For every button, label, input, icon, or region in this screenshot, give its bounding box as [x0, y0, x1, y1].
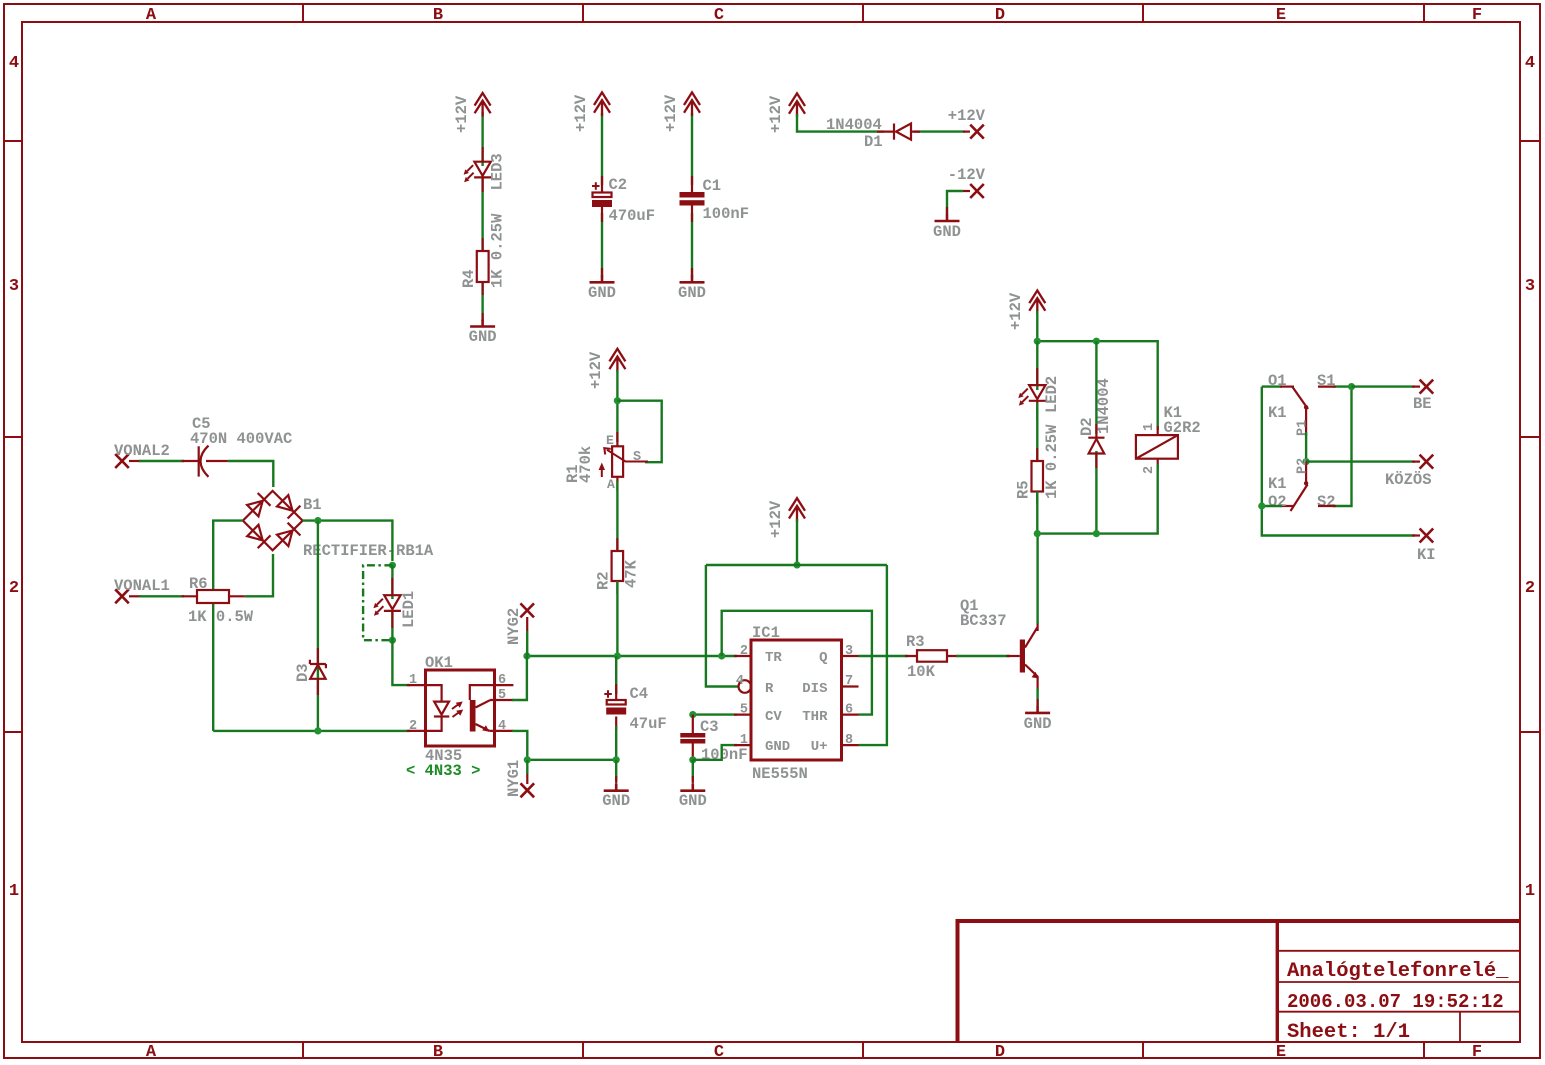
- wire (bottom rail to OK1 pin2): [213, 730, 410, 732]
- wire (D3 vertical): [317, 521, 319, 731]
- svg-text:U+: U+: [811, 739, 828, 755]
- junction (C4 bottom): [613, 756, 620, 763]
- diode B1 upper-right: [277, 495, 293, 511]
- svg-text:GND: GND: [469, 328, 497, 346]
- wire (O1 stub): [1262, 385, 1282, 387]
- internal LED: [426, 685, 442, 731]
- wire: [615, 726, 617, 760]
- svg-text:RECTIFIER-RB1A: RECTIFIER-RB1A: [303, 542, 434, 560]
- emission arrows: [452, 704, 460, 718]
- svg-text:47uF: 47uF: [630, 715, 667, 733]
- svg-text:D1: D1: [864, 133, 883, 151]
- contact K1 lower (O2/S2/P2): [1268, 458, 1336, 511]
- svg-text:GND: GND: [765, 739, 790, 755]
- svg-text:1: 1: [9, 882, 19, 901]
- frame row ticks right: [1520, 141, 1540, 732]
- wire (bridge right to LED1 corner): [303, 521, 393, 561]
- junction (bridge right): [314, 517, 321, 524]
- wire: [1036, 403, 1038, 465]
- frame row numbers right: [1525, 54, 1535, 901]
- wire (S2 stub): [1318, 505, 1336, 507]
- wire: [859, 655, 909, 657]
- svg-text:+12V: +12V: [767, 95, 785, 133]
- svg-text:E: E: [606, 433, 614, 448]
- wire (bridge left to down rail): [213, 521, 243, 731]
- svg-text:5: 5: [740, 703, 748, 718]
- svg-text:C3: C3: [700, 718, 719, 736]
- contact K1 upper (O1/S1/P1): [1268, 372, 1336, 436]
- pin -12V (X): [948, 166, 986, 198]
- LED LED1: [373, 578, 418, 628]
- svg-text:< 4N33 >: < 4N33 >: [406, 762, 480, 780]
- svg-text:+12V: +12V: [1007, 292, 1025, 330]
- supply +12V symbol (K1): [1007, 291, 1045, 331]
- svg-text:Q: Q: [819, 650, 827, 666]
- svg-text:1: 1: [409, 673, 417, 688]
- diode B1 lower-left: [247, 525, 263, 541]
- pin KI (X): [1412, 529, 1436, 565]
- phototransistor: [470, 685, 495, 700]
- svg-text:K1: K1: [1268, 404, 1287, 422]
- frame row ticks left: [4, 141, 22, 732]
- wire: [601, 113, 603, 185]
- junction (C3 bottom): [689, 756, 696, 763]
- wire: [1036, 311, 1038, 341]
- title block outline: [958, 921, 1520, 1042]
- wire (CV net): [693, 713, 737, 715]
- junction (S1): [1348, 383, 1355, 390]
- svg-text:LED2: LED2: [1043, 376, 1061, 413]
- svg-text:2: 2: [740, 644, 748, 659]
- svg-text:THR: THR: [802, 709, 828, 725]
- svg-text:7: 7: [845, 674, 853, 689]
- wire (S1 to BE): [1352, 385, 1416, 387]
- svg-text:IC1: IC1: [752, 624, 780, 642]
- svg-text:4: 4: [1525, 54, 1535, 73]
- svg-text:LED1: LED1: [400, 591, 418, 628]
- svg-text:LED3: LED3: [489, 153, 507, 190]
- pin KÖZÖS (X): [1385, 455, 1433, 489]
- wire: [481, 175, 483, 255]
- svg-text:GND: GND: [678, 284, 706, 302]
- svg-text:D: D: [995, 1043, 1005, 1062]
- wire: [1036, 534, 1038, 624]
- svg-text:F: F: [1472, 1043, 1482, 1062]
- ground symbol (C3): [679, 776, 707, 810]
- transistor Q1 BC337: [960, 597, 1039, 691]
- junction (O2): [1258, 502, 1265, 509]
- title block row lines: [1277, 951, 1520, 1042]
- svg-text:C4: C4: [630, 685, 649, 703]
- svg-text:D3: D3: [294, 663, 312, 682]
- ground symbol (R4): [469, 313, 497, 346]
- wire: [956, 655, 1010, 657]
- svg-text:D2: D2: [1078, 417, 1096, 436]
- junction (bottom D2): [1093, 530, 1100, 537]
- svg-text:+12V: +12V: [587, 351, 605, 389]
- ground symbol (C4): [602, 776, 630, 810]
- frame column letters top: [146, 6, 1482, 25]
- LED LED3: [464, 147, 507, 192]
- wire: [481, 278, 483, 321]
- pin VONAL1 (X): [114, 577, 170, 603]
- svg-text:4: 4: [736, 674, 744, 689]
- wire: [139, 460, 184, 462]
- svg-text:3: 3: [9, 277, 19, 296]
- wire: [616, 370, 618, 442]
- wire (D2 chain): [1095, 341, 1097, 533]
- svg-text:K1: K1: [1268, 475, 1287, 493]
- wire: [481, 112, 483, 166]
- capacitor C3 100nF: [680, 715, 747, 764]
- resistor R6: [182, 575, 254, 626]
- wire: [615, 760, 617, 781]
- resistor R2: [595, 538, 641, 594]
- diode B1 lower-right: [277, 531, 293, 547]
- capacitor C1: [680, 176, 750, 223]
- svg-text:GND: GND: [588, 284, 616, 302]
- junction (P2): [1303, 458, 1310, 465]
- svg-text:OK1: OK1: [425, 654, 453, 672]
- junction (top D2): [1093, 338, 1100, 345]
- wire (KÖZÖS): [1306, 460, 1415, 462]
- wire: [616, 581, 618, 656]
- resistor R5: [1015, 424, 1062, 504]
- svg-text:470uF: 470uF: [609, 207, 656, 225]
- diode B1 upper-left: [247, 501, 263, 517]
- svg-text:GND: GND: [1024, 715, 1052, 733]
- svg-text:+12V: +12V: [662, 94, 680, 132]
- svg-text:VONAL1: VONAL1: [114, 577, 170, 595]
- svg-text:A: A: [146, 6, 157, 25]
- wire (supply rail): [706, 565, 887, 745]
- supply +12V symbol (IC1): [767, 498, 805, 538]
- svg-text:E: E: [1276, 1043, 1286, 1062]
- wire (S1 stub): [1318, 386, 1336, 388]
- svg-text:+12V: +12V: [572, 94, 590, 132]
- frame row numbers left: [9, 54, 19, 901]
- svg-text:2: 2: [9, 579, 19, 598]
- junction (rail R2): [614, 652, 621, 659]
- svg-text:1: 1: [740, 733, 748, 748]
- svg-text:D: D: [995, 6, 1005, 25]
- svg-text:C2: C2: [609, 176, 628, 194]
- supply +12V symbol (D1): [767, 93, 805, 133]
- svg-text:10K: 10K: [907, 663, 936, 681]
- svg-text:100nF: 100nF: [701, 746, 748, 764]
- pin NYG1 (X): [505, 760, 534, 798]
- svg-text:KÖZÖS: KÖZÖS: [1385, 471, 1432, 489]
- wire (O2 to left rail): [1262, 505, 1282, 507]
- svg-text:R4: R4: [460, 269, 478, 288]
- svg-text:VONAL2: VONAL2: [114, 442, 170, 460]
- svg-text:Sheet: 1/1: Sheet: 1/1: [1287, 1021, 1410, 1044]
- svg-text:R2: R2: [595, 571, 613, 590]
- svg-text:R5: R5: [1015, 480, 1033, 499]
- wire: [601, 213, 603, 277]
- svg-text:CV: CV: [765, 709, 782, 725]
- svg-text:S2: S2: [1317, 493, 1336, 511]
- svg-text:C: C: [714, 1043, 724, 1062]
- svg-text:47K: 47K: [623, 559, 641, 588]
- junction (LED1 bottom): [389, 637, 396, 644]
- supply +12V symbol (C2): [572, 92, 610, 132]
- wire (left vertical O1-O2-KI): [1262, 387, 1415, 536]
- junction (D3 bottom rail): [314, 727, 321, 734]
- supply +12V symbol: [453, 93, 491, 133]
- svg-text:S: S: [633, 450, 641, 465]
- wire: [139, 595, 184, 597]
- pin +12V (X): [948, 107, 986, 139]
- wire (wiper loop): [617, 401, 661, 463]
- junction (C3 top): [689, 711, 696, 718]
- svg-text:4: 4: [9, 54, 19, 73]
- capacitor C2 polarized: [592, 176, 655, 225]
- svg-text:+12V: +12V: [767, 500, 785, 538]
- svg-text:BC337: BC337: [960, 612, 1007, 630]
- svg-text:P2: P2: [1296, 458, 1311, 474]
- svg-text:R3: R3: [906, 633, 925, 651]
- capacitor C5: [182, 415, 293, 477]
- pin VONAL2 (X): [114, 442, 170, 468]
- wire (dash-dot bypass): [363, 565, 392, 640]
- wire (top rail): [1037, 341, 1157, 430]
- wire: [228, 461, 273, 487]
- svg-text:P1: P1: [1296, 420, 1311, 436]
- relay coil K1 G2R2: [1136, 404, 1201, 474]
- wire: [615, 656, 617, 694]
- svg-text:B1: B1: [303, 496, 322, 514]
- wire: [391, 612, 393, 640]
- svg-text:1K 0.25W: 1K 0.25W: [1043, 424, 1061, 499]
- wire: [526, 760, 528, 774]
- svg-text:GND: GND: [679, 792, 707, 810]
- svg-text:NE555N: NE555N: [752, 765, 808, 783]
- wire: [526, 631, 528, 656]
- ground symbol (C1): [678, 268, 706, 302]
- svg-text:R: R: [765, 681, 774, 697]
- capacitor C4 47uF: [604, 684, 666, 733]
- svg-text:NYG2: NYG2: [505, 608, 523, 645]
- svg-text:TR: TR: [765, 650, 782, 666]
- frame column ticks top: [303, 4, 1424, 22]
- svg-text:NYG1: NYG1: [505, 760, 523, 797]
- svg-text:1K 0.25W: 1K 0.25W: [489, 213, 507, 288]
- wire: [391, 565, 393, 599]
- svg-text:B: B: [433, 1043, 443, 1062]
- resistor R3 10K: [905, 633, 959, 681]
- svg-text:470N 400VAC: 470N 400VAC: [190, 430, 292, 448]
- junction (R1 top): [614, 397, 621, 404]
- svg-text:1: 1: [1142, 423, 1157, 431]
- wire (to OK1 pin1): [392, 640, 410, 685]
- junction (supply): [793, 561, 800, 568]
- svg-text:C1: C1: [703, 177, 722, 195]
- diode D2 1N4004: [1078, 378, 1113, 468]
- wire (S1 to S2 link): [1333, 387, 1352, 506]
- junction (NYG1): [524, 756, 531, 763]
- svg-text:3: 3: [845, 644, 853, 659]
- wire (P1 to P2 junction): [1305, 432, 1307, 462]
- frame column letters bottom: [146, 1043, 1482, 1062]
- supply +12V symbol (C1): [662, 92, 700, 132]
- wire: [796, 519, 798, 565]
- svg-text:2: 2: [1142, 466, 1157, 474]
- svg-text:6: 6: [498, 673, 506, 688]
- pin NYG2 (X): [505, 603, 534, 645]
- svg-text:A: A: [146, 1043, 157, 1062]
- svg-text:2006.03.07 19:52:12: 2006.03.07 19:52:12: [1287, 991, 1504, 1013]
- svg-text:C: C: [714, 6, 724, 25]
- title block divider: [1276, 921, 1279, 1042]
- junction (LED1 top): [389, 562, 396, 569]
- junction (top LED2): [1034, 338, 1041, 345]
- ground symbol (-12V): [933, 207, 961, 241]
- svg-text:A: A: [607, 477, 615, 492]
- svg-text:470k: 470k: [577, 446, 595, 483]
- wire (C3 to 555 gnd pin): [693, 745, 737, 760]
- svg-text:1N4004: 1N4004: [826, 116, 882, 134]
- svg-text:O2: O2: [1268, 493, 1287, 511]
- wire: [692, 760, 694, 781]
- junction (rail NYG2): [523, 652, 530, 659]
- svg-text:1K 0.5W: 1K 0.5W: [188, 608, 254, 626]
- diode D1 1N4004: [826, 116, 920, 151]
- svg-text:2: 2: [1525, 579, 1535, 598]
- resistor R4: [460, 213, 507, 295]
- svg-text:8: 8: [845, 733, 853, 748]
- ground symbol (C2): [588, 268, 616, 302]
- junction (rail pin2): [718, 652, 725, 659]
- LED LED2: [1018, 368, 1061, 420]
- junction (bottom LED2): [1034, 530, 1041, 537]
- supply +12V symbol (R1): [587, 349, 625, 389]
- wire: [797, 114, 884, 132]
- pin BE (X): [1412, 380, 1433, 413]
- wire (under R6 crossing): [245, 554, 273, 596]
- wire (THR loop): [722, 611, 872, 715]
- svg-text:4: 4: [498, 719, 506, 734]
- zener diode D3: [294, 648, 326, 695]
- wire (OK1 pin5 to rail): [512, 656, 527, 700]
- svg-text:-12V: -12V: [948, 166, 986, 184]
- svg-text:BE: BE: [1413, 395, 1432, 413]
- svg-text:R6: R6: [189, 575, 208, 593]
- svg-text:1: 1: [1525, 882, 1535, 901]
- wire: [691, 113, 693, 185]
- wire: [616, 481, 618, 555]
- ground symbol (Q1): [1024, 699, 1052, 733]
- svg-text:5: 5: [498, 688, 506, 703]
- wire (C4 gnd rail): [527, 759, 616, 761]
- svg-text:2: 2: [409, 719, 417, 734]
- wire (LED2 chain): [1036, 341, 1038, 390]
- svg-text:E: E: [1276, 6, 1286, 25]
- svg-text:B: B: [433, 6, 443, 25]
- svg-text:GND: GND: [602, 792, 630, 810]
- svg-text:3: 3: [1525, 277, 1535, 296]
- frame column ticks bottom: [303, 1042, 1424, 1058]
- wire: [1036, 688, 1038, 706]
- svg-text:G2R2: G2R2: [1164, 419, 1201, 437]
- svg-text:O1: O1: [1268, 372, 1287, 390]
- wire: [1037, 464, 1157, 534]
- svg-text:GND: GND: [933, 223, 961, 241]
- svg-text:+12V: +12V: [948, 107, 986, 125]
- svg-text:DIS: DIS: [802, 681, 827, 697]
- svg-text:Analógtelefonrelé_: Analógtelefonrelé_: [1287, 960, 1509, 983]
- wire: [691, 213, 693, 277]
- svg-text:+12V: +12V: [453, 95, 471, 133]
- wire: [527, 655, 737, 657]
- trimmer R1 470k: [564, 432, 648, 492]
- svg-text:100nF: 100nF: [703, 205, 750, 223]
- svg-text:6: 6: [845, 703, 853, 718]
- svg-text:KI: KI: [1417, 546, 1436, 564]
- svg-text:F: F: [1472, 6, 1482, 25]
- wire: [1036, 492, 1038, 534]
- wire: [947, 191, 963, 214]
- wire: [914, 130, 965, 132]
- svg-text:1N4004: 1N4004: [1095, 378, 1113, 434]
- wire (OK1 pin4 to C4 rail): [512, 731, 527, 760]
